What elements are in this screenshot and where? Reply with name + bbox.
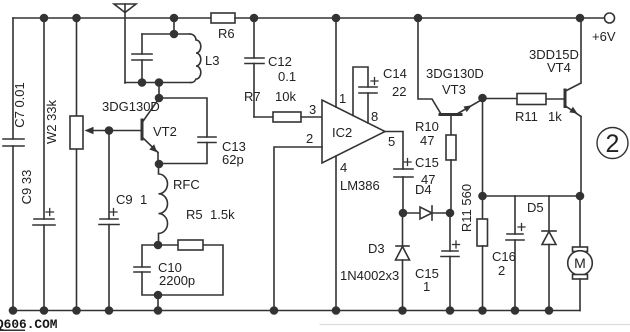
resistor R11 (1k) bbox=[517, 94, 546, 105]
capacitor C9 (1) bbox=[99, 131, 119, 311]
svg-text:2200p: 2200p bbox=[159, 273, 195, 288]
node branch right bbox=[576, 192, 585, 201]
svg-text:R11 560: R11 560 bbox=[459, 184, 474, 232]
svg-text:C12: C12 bbox=[268, 54, 292, 69]
wire bottom rail bbox=[13, 310, 580, 312]
resistor R11 (560) bbox=[477, 98, 488, 311]
node VT2 emitter bbox=[155, 160, 164, 169]
node tank-cap bottom bbox=[138, 78, 147, 87]
svg-text:62p: 62p bbox=[222, 152, 244, 167]
node VT2 collector bbox=[155, 94, 164, 103]
wire pin2 bbox=[274, 147, 322, 311]
svg-text:+6V: +6V bbox=[592, 29, 616, 44]
svg-text:D5: D5 bbox=[527, 200, 544, 215]
wiper arrow W2 bbox=[85, 127, 94, 134]
potentiometer W2 bbox=[70, 18, 83, 311]
svg-text:1.5k: 1.5k bbox=[210, 207, 235, 222]
op-amp IC2 bbox=[322, 100, 385, 163]
svg-text:1N4002x3: 1N4002x3 bbox=[340, 268, 399, 283]
capacitor C14 loop bbox=[353, 67, 378, 123]
svg-text:C7 0.01: C7 0.01 bbox=[12, 82, 27, 128]
resistor R7 bbox=[273, 112, 301, 122]
svg-text:2: 2 bbox=[606, 130, 620, 158]
inductor L3 bbox=[190, 34, 201, 83]
svg-text:R7: R7 bbox=[244, 89, 261, 104]
svg-text:L3: L3 bbox=[205, 53, 219, 68]
antenna bbox=[114, 4, 136, 83]
svg-text:3DG130D: 3DG130D bbox=[102, 99, 160, 114]
transistor VT4 bbox=[565, 18, 581, 196]
svg-text:2: 2 bbox=[306, 131, 313, 146]
svg-text:C15: C15 bbox=[415, 155, 439, 170]
svg-text:R11: R11 bbox=[515, 109, 538, 124]
svg-text:VT3: VT3 bbox=[442, 82, 466, 97]
svg-text:C16: C16 bbox=[492, 249, 516, 264]
wire R7 input bbox=[254, 116, 273, 118]
svg-text:W2 33k: W2 33k bbox=[44, 99, 59, 144]
svg-text:C9: C9 bbox=[116, 192, 133, 207]
wire tank top bbox=[142, 18, 190, 34]
svg-text:VT4: VT4 bbox=[547, 60, 571, 75]
capacitor tank bbox=[132, 34, 152, 83]
svg-text:2: 2 bbox=[498, 263, 505, 278]
svg-text:1: 1 bbox=[339, 91, 346, 106]
svg-text:8: 8 bbox=[371, 109, 378, 124]
svg-text:3: 3 bbox=[309, 102, 316, 117]
wire top rail right segment bbox=[235, 17, 605, 19]
svg-text:D4: D4 bbox=[415, 182, 432, 197]
faint artifact line bbox=[320, 324, 630, 326]
wire collector drop bbox=[158, 83, 160, 99]
svg-text:VT2: VT2 bbox=[153, 124, 177, 139]
diode D5 bbox=[542, 196, 556, 311]
svg-text:1: 1 bbox=[423, 279, 430, 294]
wire R7 to pin3 bbox=[301, 116, 322, 118]
watermark underline bbox=[0, 330, 25, 332]
capacitor C13 loop bbox=[159, 98, 216, 164]
node A bbox=[399, 209, 408, 218]
svg-text:RFC: RFC bbox=[173, 177, 200, 192]
svg-text:M: M bbox=[574, 255, 586, 271]
node RFC bottom bbox=[154, 241, 163, 250]
capacitor C7 bbox=[3, 18, 24, 311]
node VT3 emitter bbox=[478, 94, 487, 103]
wire R11 1k bbox=[483, 98, 565, 101]
svg-text:C9 33: C9 33 bbox=[19, 170, 34, 205]
svg-text:4: 4 bbox=[340, 160, 347, 175]
node tank top bbox=[170, 30, 179, 39]
resistor R6 bbox=[211, 13, 235, 23]
wire pin4 to rail bbox=[335, 156, 337, 311]
resistor R5 bbox=[178, 240, 203, 250]
capacitor C15 (47) bbox=[394, 159, 413, 214]
capacitor C15 (1) bbox=[441, 213, 460, 311]
svg-text:47: 47 bbox=[420, 133, 434, 148]
diode D4 bbox=[403, 206, 450, 220]
node base junction bbox=[105, 126, 114, 135]
wire top rail left segment bbox=[13, 17, 211, 19]
svg-text:10k: 10k bbox=[275, 89, 296, 104]
terminal +6V bbox=[605, 13, 615, 23]
svg-text:R6: R6 bbox=[218, 26, 235, 41]
capacitor C9 (33) bbox=[33, 18, 55, 311]
node tank-collector bbox=[155, 78, 164, 87]
svg-text:1k: 1k bbox=[548, 109, 562, 124]
transistor VT3 bbox=[418, 18, 483, 115]
transistor VT2 bbox=[142, 99, 159, 165]
wire pin1 to rail bbox=[335, 18, 337, 107]
wire R5/C10 loop bbox=[142, 245, 223, 295]
node loop bottom bbox=[154, 291, 163, 300]
wire branch node bbox=[483, 195, 581, 197]
capacitor C16 bbox=[506, 196, 525, 311]
svg-text:5: 5 bbox=[388, 134, 395, 149]
capacitor C10 bbox=[134, 267, 150, 272]
svg-text:R5: R5 bbox=[186, 207, 203, 222]
motor M bbox=[568, 247, 593, 311]
svg-text:D3: D3 bbox=[368, 241, 385, 256]
wire loop to rail bbox=[157, 295, 159, 311]
svg-text:1: 1 bbox=[140, 192, 147, 207]
inductor RFC bbox=[159, 164, 168, 245]
svg-text:LM386: LM386 bbox=[340, 178, 380, 193]
svg-text:C14: C14 bbox=[383, 66, 407, 81]
marker circled 2 bbox=[597, 128, 628, 159]
node emitter branch bbox=[478, 192, 487, 201]
svg-text:R10: R10 bbox=[415, 119, 439, 134]
svg-text:IC2: IC2 bbox=[332, 125, 352, 140]
svg-text:3DG130D: 3DG130D bbox=[426, 66, 484, 81]
svg-text:22: 22 bbox=[392, 84, 406, 99]
wire tank bottom bbox=[125, 82, 191, 84]
svg-text:0.1: 0.1 bbox=[278, 69, 296, 84]
resistor R10 bbox=[446, 115, 456, 213]
diode D3 bbox=[396, 213, 410, 311]
wire pin5 bbox=[385, 132, 403, 170]
wire VT2 base bbox=[93, 130, 141, 132]
wire motor feed bbox=[579, 196, 581, 247]
capacitor C12 bbox=[245, 18, 264, 117]
node B bbox=[446, 209, 455, 218]
